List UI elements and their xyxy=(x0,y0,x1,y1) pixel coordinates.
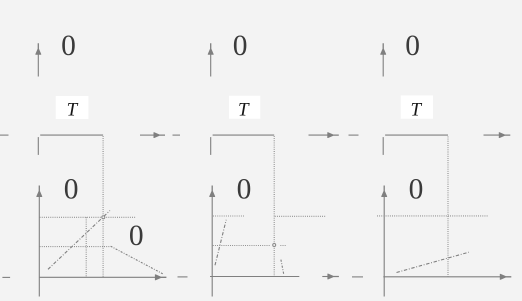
dotted vertical at T xyxy=(447,137,449,277)
P3 bottom x-axis arrowhead xyxy=(500,274,512,280)
pulse top edge xyxy=(40,134,103,136)
dotted horizontal level 2 xyxy=(40,246,111,248)
ring marker xyxy=(102,216,105,219)
bottom y-axis shaft xyxy=(211,196,213,297)
P1 bottom x-axis arrowhead xyxy=(155,274,167,280)
bottom x-axis main xyxy=(210,276,299,278)
shallow rising diagonal dash-dot xyxy=(397,252,469,272)
top y-axis tail below axis xyxy=(210,137,212,155)
white label boxes xyxy=(56,95,433,119)
top y-axis shaft xyxy=(382,55,384,77)
rising dash-dot diagonal xyxy=(48,211,110,270)
svg-text:0: 0 xyxy=(61,30,76,62)
top y-axis shaft xyxy=(210,55,212,77)
top y-axis shaft xyxy=(37,55,39,77)
svg-text:0: 0 xyxy=(409,174,424,206)
bottom x-axis left tail xyxy=(2,276,10,278)
dotted horizontal level 1 xyxy=(377,215,488,217)
dotted horizontal level 1 xyxy=(40,216,136,218)
top x-axis left tail xyxy=(173,134,181,136)
bottom x-axis arrow shaft xyxy=(322,276,328,278)
top x-axis arrow shaft xyxy=(140,134,155,136)
steep rising ramp dash-dot xyxy=(215,220,226,265)
P1 bottom y-axis arrowhead xyxy=(36,186,42,198)
pulse top edge xyxy=(385,134,448,136)
P1 top x-axis arrowhead xyxy=(154,132,166,138)
svg-text:T: T xyxy=(238,99,250,120)
pulse top edge xyxy=(213,134,275,136)
arrowheads xyxy=(35,43,511,280)
svg-text:T: T xyxy=(411,100,423,121)
P2 T-box xyxy=(229,96,260,119)
ring marker xyxy=(273,244,276,247)
P2 top y-axis arrowhead xyxy=(208,43,214,55)
top y-axis tail below axis xyxy=(37,137,39,155)
dotted horizontal level 2 right dots xyxy=(280,245,285,247)
svg-text:0: 0 xyxy=(129,220,144,252)
P2 top x-axis arrowhead xyxy=(327,132,339,138)
dotted horizontal level 1 left xyxy=(213,215,244,217)
dotted vertical at T xyxy=(273,136,275,277)
P1 T-box xyxy=(56,96,89,119)
P1 top y-axis arrowhead xyxy=(35,43,41,55)
top x-axis arrow shaft xyxy=(309,134,329,136)
falling dash-dot diagonal xyxy=(111,246,164,274)
top x-axis left tail xyxy=(0,134,9,136)
bottom y-axis shaft xyxy=(383,196,385,297)
dotted horizontal level 2 xyxy=(213,245,271,247)
bottom x-axis main xyxy=(383,276,500,278)
steep falling stub dash-dot xyxy=(281,260,284,275)
bottom x-axis main xyxy=(39,276,156,278)
bottom x-axis left tail xyxy=(352,276,363,278)
svg-text:0: 0 xyxy=(237,174,252,206)
dotted horizontal level 1 right xyxy=(275,215,326,217)
P3 top x-axis arrowhead xyxy=(499,132,511,138)
P3 bottom y-axis arrowhead xyxy=(381,186,387,198)
top x-axis left tail xyxy=(349,134,359,136)
bottom x-axis left tail xyxy=(178,276,188,278)
P2 bottom y-axis arrowhead xyxy=(209,186,215,198)
svg-text:0: 0 xyxy=(405,30,420,62)
top y-axis tail below axis xyxy=(382,137,384,155)
top x-axis arrow shaft xyxy=(484,134,500,136)
P2 bottom x-axis arrowhead xyxy=(327,274,339,280)
bottom y-axis shaft xyxy=(38,196,40,297)
dotted vertical at T xyxy=(102,136,104,277)
svg-text:T: T xyxy=(67,100,79,121)
P3 top y-axis arrowhead xyxy=(380,43,386,55)
dotted vertical inner xyxy=(85,217,87,277)
P3 T-box xyxy=(401,95,433,118)
svg-text:0: 0 xyxy=(233,30,248,62)
svg-text:0: 0 xyxy=(64,174,79,206)
